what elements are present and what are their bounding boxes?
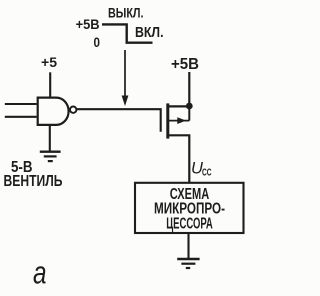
- svg-text:+5В: +5В: [171, 56, 199, 73]
- svg-text:+5: +5: [41, 54, 57, 70]
- svg-text:ВЫКЛ.: ВЫКЛ.: [108, 5, 144, 21]
- svg-text:CC: CC: [202, 168, 212, 179]
- svg-text:ВЕНТИЛЬ: ВЕНТИЛЬ: [4, 173, 63, 190]
- svg-text:+5В: +5В: [76, 16, 100, 32]
- svg-text:ЦЕССОРА: ЦЕССОРА: [166, 216, 213, 233]
- svg-text:а: а: [33, 255, 47, 291]
- svg-text:0: 0: [94, 34, 101, 50]
- svg-text:ВКЛ.: ВКЛ.: [135, 24, 164, 41]
